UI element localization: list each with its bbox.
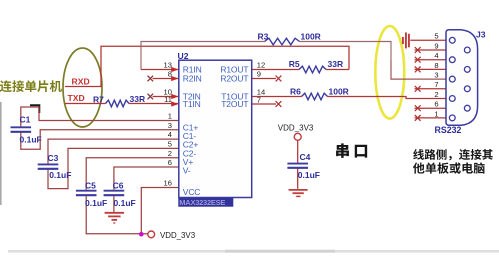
svg-text:C6: C6 — [113, 180, 124, 190]
svg-text:1: 1 — [434, 109, 438, 118]
svg-text:1: 1 — [168, 112, 172, 121]
svg-text:T2OUT: T2OUT — [221, 99, 248, 109]
svg-text:3: 3 — [434, 71, 438, 80]
svg-text:11: 11 — [164, 95, 172, 104]
svg-text:6: 6 — [434, 100, 438, 109]
svg-text:RS232: RS232 — [435, 125, 462, 135]
svg-text:33R: 33R — [328, 59, 344, 69]
svg-text:5: 5 — [168, 140, 172, 149]
svg-text:0.1uF: 0.1uF — [114, 198, 136, 208]
svg-text:MAX3232ESE: MAX3232ESE — [179, 198, 225, 207]
svg-text:R2IN: R2IN — [183, 74, 202, 84]
svg-text:VDD_3V3: VDD_3V3 — [160, 231, 196, 240]
svg-text:13: 13 — [164, 61, 172, 70]
svg-text:9: 9 — [434, 41, 438, 50]
svg-text:4: 4 — [168, 130, 172, 139]
svg-text:8: 8 — [168, 70, 172, 79]
svg-text:VCC: VCC — [183, 187, 201, 197]
svg-text:8: 8 — [434, 61, 438, 70]
svg-text:R7: R7 — [93, 95, 104, 105]
svg-text:R3: R3 — [258, 31, 269, 41]
svg-text:6: 6 — [168, 158, 172, 167]
svg-text:100R: 100R — [301, 31, 321, 41]
svg-text:16: 16 — [164, 178, 172, 187]
svg-text:4: 4 — [434, 51, 438, 60]
svg-text:C1: C1 — [20, 115, 31, 125]
svg-text:2: 2 — [434, 90, 438, 99]
svg-text:3: 3 — [168, 121, 172, 130]
svg-text:7: 7 — [257, 95, 261, 104]
svg-text:R2OUT: R2OUT — [220, 74, 248, 84]
svg-text:7: 7 — [434, 80, 438, 89]
svg-text:J3: J3 — [476, 30, 486, 40]
svg-text:12: 12 — [257, 61, 265, 70]
svg-text:9: 9 — [257, 70, 261, 79]
svg-text:5: 5 — [434, 32, 438, 41]
svg-text:0.1uF: 0.1uF — [85, 198, 107, 208]
svg-text:U2: U2 — [178, 51, 189, 61]
svg-text:2: 2 — [168, 149, 172, 158]
svg-text:TXD: TXD — [68, 93, 85, 103]
svg-text:C4: C4 — [300, 152, 311, 162]
svg-text:0.1uF: 0.1uF — [298, 170, 320, 180]
svg-text:RXD: RXD — [72, 77, 90, 87]
svg-text:33R: 33R — [130, 94, 146, 104]
svg-text:R5: R5 — [289, 59, 300, 69]
svg-text:100R: 100R — [329, 87, 349, 97]
svg-text:R6: R6 — [290, 87, 301, 97]
svg-text:VDD_3V3: VDD_3V3 — [278, 123, 314, 132]
svg-text:0.1uF: 0.1uF — [49, 170, 71, 180]
svg-text:V-: V- — [183, 165, 191, 175]
svg-text:0.1uF: 0.1uF — [20, 134, 42, 144]
svg-text:T1IN: T1IN — [183, 99, 201, 109]
svg-text:C5: C5 — [85, 180, 96, 190]
svg-text:C3: C3 — [48, 153, 59, 163]
